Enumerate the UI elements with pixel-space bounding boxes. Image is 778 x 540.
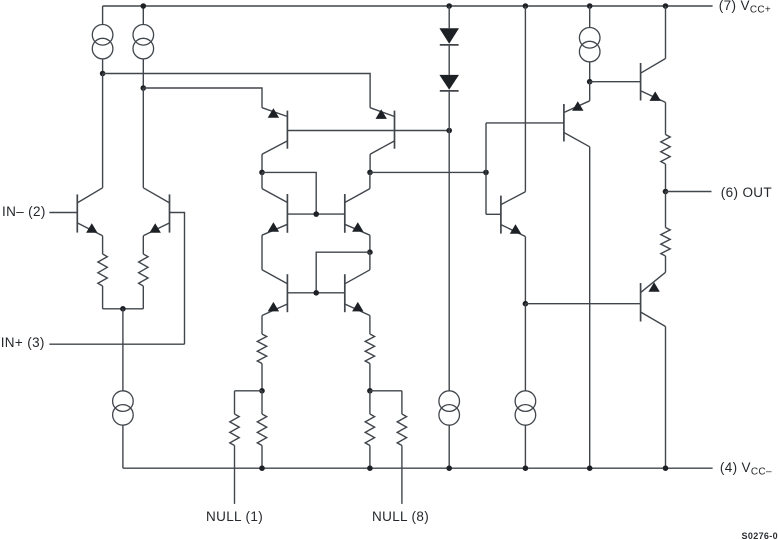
node H (Q5-Q6 bases)	[313, 211, 319, 217]
wire IN+ lead	[49, 343, 184, 345]
diode D1	[439, 28, 459, 45]
wire Q5 collector up	[261, 172, 263, 188]
wire OUT lead	[666, 191, 712, 193]
wire Q5 emitter to Q7 collector	[261, 235, 263, 270]
junction I4 / VCC- rail	[446, 465, 452, 471]
junction I5 / VCC- rail	[523, 465, 529, 471]
wire rail to D1	[448, 6, 450, 28]
label (7) VCC+	[719, 0, 771, 15]
node A (I1 output)	[100, 71, 106, 77]
wire to R8	[370, 390, 402, 392]
wire I2 to Q2 collector	[142, 88, 144, 188]
wire Q3 collector down	[261, 154, 263, 172]
label IN+ (3)	[1, 336, 45, 350]
node D (bases to diode string)	[446, 128, 452, 134]
current source I6	[579, 6, 600, 82]
junction Q10 collector / VCC- rail	[587, 465, 593, 471]
wire node I to Q8 collector	[369, 252, 371, 270]
node E (Q3 collector)	[259, 170, 265, 176]
wire Q5-Q6 base line	[287, 213, 344, 215]
wire node I to Q7-Q8 bases	[316, 252, 370, 293]
label NULL (8)	[372, 510, 429, 524]
node G (Q9-Q10 bases)	[483, 170, 489, 176]
node K (R3 bottom)	[259, 388, 265, 394]
transistor Q1	[77, 188, 102, 236]
current source I1	[92, 6, 113, 74]
resistor R5	[230, 391, 239, 504]
wire I1 to Q1 collector	[102, 74, 104, 188]
node P (I6 output)	[587, 79, 593, 85]
current source I5	[515, 391, 536, 468]
transistor Q6	[345, 189, 370, 236]
wire Q10 collector to rail	[589, 147, 591, 468]
wire Q9 collector to rail	[524, 6, 526, 192]
node C (tail)	[120, 306, 126, 312]
wire node N down	[524, 304, 526, 391]
wire node F to node G	[370, 171, 486, 173]
junction top rail / I6	[587, 3, 593, 9]
current source I3 (tail)	[113, 391, 134, 468]
wire to R5	[235, 390, 263, 392]
junction top rail / Q11 collector	[663, 3, 669, 9]
wire node G vertical	[485, 123, 487, 214]
wire Q9 emitter down	[524, 237, 526, 304]
transistor Q12	[641, 272, 666, 326]
wire VCC+ top rail	[103, 5, 713, 7]
junction top rail / Q9 collector	[523, 3, 529, 9]
label NULL (1)	[206, 510, 263, 524]
transistor Q2	[143, 188, 169, 236]
wire node B to Q3 emitter	[143, 88, 262, 108]
resistor R10	[661, 192, 670, 273]
wire Q10 base lead	[486, 122, 564, 124]
wire Q3-Q4 base line	[287, 130, 449, 132]
junction Q12 collector / VCC- rail	[663, 465, 669, 471]
label S0276-01	[742, 532, 778, 540]
wire Q12 collector to rail	[665, 327, 667, 469]
wire tail down	[122, 309, 124, 391]
node I (Q6 emitter)	[367, 249, 373, 255]
wire Q11 collector to rail	[665, 6, 667, 59]
current source I2	[133, 6, 154, 88]
transistor Q5	[262, 189, 287, 236]
resistor R9	[661, 102, 670, 191]
wire D1 to D2	[448, 46, 450, 75]
node OUT	[663, 189, 669, 195]
resistor R8	[397, 391, 406, 504]
transistor Q8	[345, 270, 370, 316]
wire Q7-Q8 base line	[287, 292, 344, 294]
resistor R4	[365, 316, 374, 391]
wire diode string down	[448, 92, 450, 391]
junction top rail / I2	[141, 3, 147, 9]
transistor Q4	[370, 108, 394, 155]
resistor R3	[257, 316, 266, 391]
wire node N to Q12 base	[525, 303, 640, 305]
wire node E to Q5-Q6 bases	[262, 172, 316, 214]
node M (R4 bottom)	[367, 388, 373, 394]
label IN- (2)	[2, 205, 46, 219]
label (6) OUT	[721, 186, 772, 200]
wire Q11 base lead	[590, 81, 641, 83]
wire R1-R2 junction	[103, 308, 144, 310]
junction R6 / VCC- rail	[259, 465, 265, 471]
wire Q6 collector up	[369, 172, 371, 188]
node B (I2 output)	[141, 85, 147, 91]
transistor Q10	[564, 101, 590, 147]
wire VCC- bottom rail	[123, 467, 713, 469]
wire Q9 base lead	[486, 213, 501, 215]
junction top rail / diode string	[446, 3, 452, 9]
label (4) VCC-	[720, 461, 772, 478]
transistor Q9	[501, 192, 526, 237]
resistor R6	[257, 391, 266, 468]
node F (Q4 collector)	[367, 170, 373, 176]
wire Q4 collector down	[369, 154, 371, 172]
resistor R2	[139, 236, 148, 309]
transistor Q7	[262, 270, 287, 316]
wire IN- lead	[49, 212, 77, 214]
transistor Q3	[262, 108, 287, 155]
wire Q10 emitter up	[589, 82, 591, 101]
wire node A to Q4 emitter	[103, 74, 371, 108]
node J (Q7-Q8 bases)	[313, 290, 319, 296]
wire Q6 emitter down	[369, 235, 371, 252]
current source I4	[439, 391, 460, 468]
transistor Q11	[641, 59, 666, 103]
diode D2	[439, 75, 459, 91]
resistor R1	[98, 236, 107, 309]
wire Q2 base to IN+	[170, 213, 185, 345]
node N (Q9 emitter)	[523, 301, 529, 307]
junction R7 / VCC- rail	[367, 465, 373, 471]
resistor R7	[365, 391, 374, 468]
